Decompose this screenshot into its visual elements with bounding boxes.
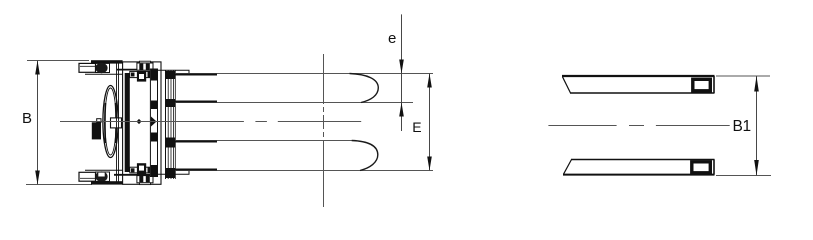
horizontal centerline left (60, 121, 244, 123)
svg-text:B1: B1 (733, 118, 751, 135)
mast column (150, 69, 157, 177)
right view top fork heel block (693, 79, 711, 91)
bottom caster wheel housing (96, 172, 110, 181)
bottom caster axle cap (79, 172, 96, 181)
top caster bracket bottom line (85, 73, 123, 75)
handle knob (92, 122, 101, 139)
svg-text:B: B (22, 110, 32, 127)
bottom caster bracket top line (85, 169, 123, 171)
top fork top edge (175, 73, 433, 75)
bottom fork tip (352, 141, 378, 171)
dimension E line (429, 74, 431, 171)
dimension e arrow up (399, 103, 404, 117)
dimension e arrow down (399, 60, 404, 74)
right view top fork taper (563, 77, 571, 93)
carriage left black bar (125, 73, 130, 172)
bottom caster wheel (95, 171, 107, 181)
top fork tip (350, 74, 379, 103)
top caster wheel (95, 63, 107, 73)
dimension B extension line bottom (26, 184, 92, 186)
dimension e line (401, 14, 403, 131)
right view bottom fork end (713, 160, 715, 175)
steering wheel rim thick arc left (104, 103, 106, 143)
carriage bottom cross member (114, 174, 154, 176)
dimension B line (37, 61, 39, 185)
dimension E arrow down (427, 157, 432, 171)
dimension B1 extension bottom (716, 175, 771, 177)
top fork bottom edge (175, 102, 413, 104)
steering shaft left line (116, 64, 118, 182)
top clamp (140, 61, 151, 63)
steering wheel rim inner (105, 88, 116, 155)
steering shaft right line (118, 64, 120, 182)
dimension B arrow up (35, 61, 40, 75)
steering wheel rim (103, 86, 118, 158)
top linkage cluster (130, 71, 153, 77)
right column verticals (165, 71, 167, 180)
right view centerline (548, 125, 616, 127)
right view bottom fork bottom edge (563, 174, 715, 176)
center pivot dot (137, 119, 142, 124)
vertical section line (323, 54, 325, 104)
dimension B1 arrow up (754, 76, 759, 92)
bottom fork top edge (175, 140, 352, 142)
dimension B extension line top (27, 60, 89, 62)
bottom linkage cluster (130, 167, 153, 173)
dimension B1 extension top (716, 75, 770, 77)
right view top fork end (713, 76, 715, 93)
carriage outer frame (123, 62, 161, 184)
right view top fork top edge (562, 75, 715, 77)
svg-text:E: E (412, 119, 421, 135)
svg-text:e: e (388, 30, 396, 47)
right view bottom fork top edge (571, 159, 715, 161)
fork shoulder bottom (158, 170, 190, 174)
top caster axle cap (79, 63, 96, 72)
fork shoulder top (158, 70, 190, 73)
steering wheel hub (111, 118, 122, 128)
dimension B1 line (756, 76, 758, 176)
top caster wheel housing (96, 63, 110, 72)
bottom caster bar (91, 181, 123, 184)
right view bottom fork taper (564, 160, 572, 175)
right view top fork bottom edge (570, 92, 715, 94)
right view bottom fork heel block (692, 162, 711, 173)
carriage top cross member (117, 69, 154, 71)
top caster bar (91, 60, 123, 63)
dimension B1 arrow down (754, 160, 759, 176)
right column blocks (166, 71, 176, 79)
dimension B arrow down (35, 171, 40, 185)
bottom fork bottom edge (175, 170, 433, 172)
bottom clamp (137, 176, 153, 183)
steering wheel rim thick arc right (115, 103, 117, 143)
handle knob mount (97, 119, 101, 123)
dimension E arrow up (427, 74, 432, 88)
